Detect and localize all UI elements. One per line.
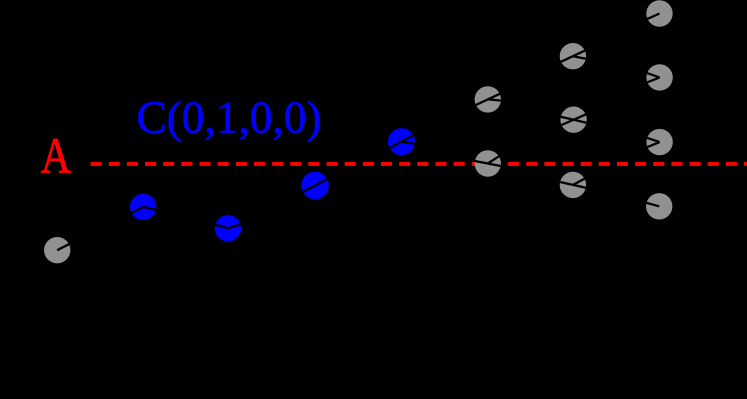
node 6 gray (488,99) diameter 25deg + hand -5deg: [475, 86, 501, 112]
dashed line A: [91, 162, 747, 166]
node 5 blue (401,141) diameter 29deg + hand -9deg: [388, 128, 415, 155]
node 9 gray (574,120) X diameters 24deg and -13deg: [560, 107, 586, 133]
node 2 blue (143,207) hands 207deg and -13deg: [130, 194, 156, 220]
svg-text:C(0,1,0,0): C(0,1,0,0): [137, 91, 322, 142]
node 12 gray (660,77) hands 161deg and 202deg: [646, 64, 672, 90]
node 10 gray (573,185) diameter -13deg + hand 28deg: [560, 172, 586, 198]
node 14 gray (659,206) hand 165deg: [646, 193, 672, 219]
node 13 gray (660,142) hands 161deg and 202deg: [646, 129, 672, 155]
node 1 gray (57,250) hand 27deg: [44, 237, 70, 263]
node 7 gray (488,163) diameter -11deg + hand 33deg: [475, 150, 501, 176]
svg-text:A: A: [41, 128, 72, 184]
node 3 blue (228,228) hands 164deg and 18deg: [214, 215, 241, 241]
node 8 gray (573,56) diameter 25deg + hand -11deg: [560, 43, 586, 69]
node 4 blue (315,185) diameter 28deg: [301, 172, 329, 200]
node 11 gray (660,14) hand 204deg: [646, 0, 672, 26]
